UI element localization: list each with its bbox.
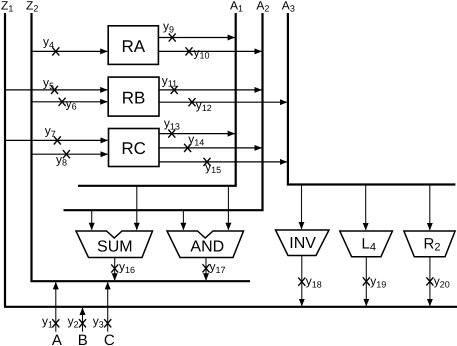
- block INV: [276, 230, 330, 256]
- svg-text:R2: R2: [424, 235, 441, 253]
- svg-text:y13: y13: [164, 116, 180, 131]
- svg-text:C: C: [104, 332, 115, 346]
- svg-text:y12: y12: [196, 98, 212, 113]
- wire input B (up to Z1 bus): [68, 308, 88, 346]
- block L4: [340, 231, 393, 257]
- svg-text:y5: y5: [43, 76, 54, 91]
- svg-text:RA: RA: [121, 37, 145, 56]
- bus A1: [78, 13, 237, 186]
- wire y14 (RC out to A2): [159, 132, 261, 152]
- svg-text:y6: y6: [66, 96, 77, 111]
- svg-text:L4: L4: [362, 235, 376, 253]
- svg-text:INV: INV: [289, 235, 316, 252]
- svg-text:Z2: Z2: [26, 0, 38, 14]
- svg-text:RB: RB: [122, 88, 146, 107]
- block R2: [404, 231, 455, 257]
- wire drop A3 to INV input: [301, 185, 303, 229]
- svg-text:B: B: [78, 332, 88, 346]
- wire drop A1 to SUM right input: [136, 186, 138, 230]
- wire y13 (RC out to A1): [159, 116, 235, 138]
- svg-text:Z1: Z1: [1, 0, 13, 14]
- bus Z2: [30, 13, 250, 281]
- wire y17 (AND output to Z2 bus): [203, 258, 226, 281]
- wire drop A3 to R2 input: [429, 185, 431, 230]
- wire y5 (Z1 to RB input): [5, 76, 107, 95]
- svg-text:y7: y7: [45, 124, 56, 139]
- svg-text:A3: A3: [282, 0, 295, 14]
- svg-text:y9: y9: [163, 19, 174, 34]
- svg-text:y17: y17: [210, 260, 226, 275]
- register RC: [109, 129, 160, 167]
- svg-text:y10: y10: [194, 45, 210, 60]
- bus A2: [64, 13, 264, 210]
- wire y18 (INV output to Z1 bus): [298, 256, 322, 306]
- wire y16 (SUM output to Z2 bus): [111, 258, 135, 281]
- wire y11 (RB out to A2): [159, 73, 261, 94]
- wire y10 (RA out to A2): [158, 45, 261, 60]
- svg-text:y3: y3: [93, 314, 104, 329]
- svg-text:A1: A1: [230, 0, 243, 14]
- svg-text:y18: y18: [306, 274, 322, 289]
- svg-text:y14: y14: [188, 132, 204, 147]
- svg-text:RC: RC: [121, 139, 146, 158]
- register RA: [108, 26, 158, 65]
- wire drop A2 to SUM left input: [91, 210, 93, 230]
- wire y15 (RC out to A3): [159, 158, 287, 175]
- wire input C (up to Z2 bus): [93, 282, 115, 346]
- svg-text:y20: y20: [434, 274, 450, 289]
- wire y20 (R2 output to Z1 bus): [426, 257, 449, 306]
- wire y4 (Z2 to RA input): [32, 35, 108, 56]
- wire drop A2 to AND left input: [182, 210, 184, 230]
- wire y9 (RA out to A1): [158, 19, 234, 42]
- svg-text:A2: A2: [256, 0, 269, 14]
- svg-text:y11: y11: [162, 73, 177, 88]
- wire y12 (RB out to A3): [159, 98, 287, 113]
- register RB: [108, 77, 159, 116]
- wire y7 (Z1 to RC input): [5, 124, 108, 145]
- svg-text:y16: y16: [119, 260, 135, 275]
- wire input A (up to Z2 bus): [42, 282, 62, 346]
- svg-text:SUM: SUM: [97, 239, 133, 256]
- wire y6 (Z2 to RB input): [32, 96, 108, 111]
- wire y8 (Z2 to RC input): [32, 150, 108, 168]
- svg-text:AND: AND: [190, 239, 224, 256]
- ALU AND: [167, 231, 244, 258]
- bus A3: [287, 13, 456, 185]
- svg-text:y1: y1: [42, 314, 53, 329]
- svg-text:y19: y19: [370, 274, 386, 289]
- svg-text:A: A: [52, 332, 62, 346]
- svg-text:y2: y2: [68, 314, 79, 329]
- wire drop A3 to L4 input: [365, 185, 367, 230]
- ALU SUM: [76, 231, 153, 258]
- wire y19 (L4 output to Z1 bus): [363, 257, 386, 306]
- svg-text:y4: y4: [43, 35, 54, 50]
- wire drop A1 to AND right input: [227, 186, 229, 230]
